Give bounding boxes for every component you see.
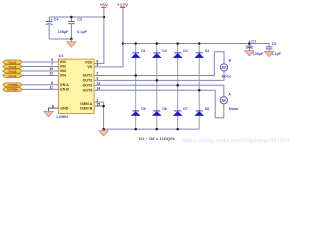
diode D8 — [195, 107, 210, 116]
node ISEN join — [102, 105, 105, 108]
capacitor C1 — [246, 40, 264, 57]
svg-text:7: 7 — [51, 63, 53, 67]
node D7 bottom rail — [176, 128, 179, 131]
node C1 top rail — [248, 42, 251, 45]
svg-text:D1 ~ D8 = 11DQ06: D1 ~ D8 = 11DQ06 — [139, 136, 176, 141]
svg-text:12: 12 — [49, 72, 53, 76]
svg-text:4: 4 — [96, 63, 98, 67]
wire cap bottom — [49, 38, 71, 40]
wire +5V vertical to VSS pin 9 — [94, 8, 104, 64]
node rail left end — [102, 128, 105, 131]
ground (below C1) — [245, 51, 255, 56]
wire Port1 to IN1 — [22, 61, 58, 63]
svg-text:Motor: Motor — [229, 107, 239, 111]
wire B PWM to EN B — [22, 88, 58, 90]
svg-text:D5: D5 — [141, 107, 145, 111]
diode D1 — [131, 49, 146, 58]
svg-text:6: 6 — [51, 81, 53, 85]
diode D4 — [195, 49, 210, 58]
wire OUT3 to motor A top — [94, 85, 224, 97]
svg-text:OUT2: OUT2 — [83, 79, 93, 83]
svg-text:Port2: Port2 — [9, 65, 17, 69]
svg-text:L298N: L298N — [57, 115, 69, 119]
diode D5 — [131, 107, 146, 116]
svg-text:ISEN B: ISEN B — [80, 107, 92, 111]
node +5V cap tee — [103, 16, 106, 19]
node D1 OUT1 — [134, 74, 137, 77]
svg-text:5: 5 — [51, 58, 53, 62]
wire GND pin 8 — [49, 108, 59, 112]
wire OUT4 to motor A bottom — [94, 90, 224, 118]
svg-text:100µF: 100µF — [253, 52, 265, 56]
svg-text:Motor: Motor — [222, 74, 232, 78]
svg-text:IN1: IN1 — [60, 60, 66, 64]
port A PWM — [3, 83, 23, 87]
node D4 OUT4 — [198, 89, 201, 92]
diode D2 column wire — [156, 44, 158, 130]
op-amp U1 body (L298N) — [58, 59, 94, 113]
svg-text:C3: C3 — [77, 18, 82, 22]
svg-text:11: 11 — [49, 86, 53, 90]
svg-text:M: M — [222, 98, 226, 103]
port B PWM — [3, 87, 23, 91]
svg-text:IN4: IN4 — [60, 74, 66, 78]
ground (IC GND) — [44, 111, 54, 116]
svg-text:EN A: EN A — [60, 83, 69, 87]
node C3 top — [70, 16, 73, 19]
wire bottom ground rail — [104, 128, 200, 130]
node D5 bottom rail — [134, 128, 137, 131]
node D2 top rail — [156, 42, 159, 45]
diode D7 — [173, 107, 188, 116]
svg-text:D6: D6 — [162, 107, 166, 111]
svg-text:C1: C1 — [251, 40, 256, 44]
svg-text:GND: GND — [60, 107, 68, 111]
port Port2 — [3, 65, 23, 69]
svg-text:100µF: 100µF — [58, 30, 70, 34]
svg-text:+12V: +12V — [117, 2, 129, 7]
svg-text:10: 10 — [49, 67, 53, 71]
node D2 OUT2 — [156, 79, 159, 82]
wire +12V top rail — [123, 43, 269, 45]
svg-text:U1: U1 — [59, 54, 64, 58]
svg-text:M: M — [222, 65, 226, 70]
svg-text:IN2: IN2 — [60, 65, 66, 69]
motor A — [220, 92, 239, 111]
diode D3 column wire — [177, 44, 179, 130]
svg-text:A PWM: A PWM — [7, 83, 18, 87]
diode D6 — [152, 107, 167, 116]
ground (below C2) — [264, 51, 274, 56]
svg-text:OUT4: OUT4 — [83, 88, 93, 92]
port Port4 — [3, 74, 23, 78]
wire Port2 to IN2 — [22, 66, 58, 68]
svg-text:IN3: IN3 — [60, 69, 66, 73]
svg-text:D3: D3 — [183, 49, 187, 53]
wire OUT2 to motor B bottom — [94, 71, 224, 81]
motor B — [220, 58, 231, 78]
node D4 top rail — [198, 42, 201, 45]
svg-text:VSS: VSS — [85, 61, 93, 65]
svg-text:0.1µF: 0.1µF — [77, 30, 87, 34]
wire cap top rail — [49, 16, 104, 18]
diode D2 — [152, 49, 167, 58]
wire A PWM to EN A — [22, 84, 58, 86]
svg-text:Port4: Port4 — [9, 74, 17, 78]
svg-text:+5V: +5V — [100, 2, 109, 7]
svg-text:D4: D4 — [205, 49, 209, 53]
port Port1 — [3, 60, 23, 64]
capacitor C4 — [46, 17, 69, 39]
wire +12V vertical to VS pin 4 — [94, 8, 123, 67]
svg-text:C2: C2 — [272, 42, 277, 46]
ground (below C3/C4) — [67, 39, 77, 47]
node +12V rail tee — [122, 42, 125, 45]
svg-text:D8: D8 — [205, 107, 209, 111]
node C3 bottom — [70, 38, 73, 41]
svg-text:D7: D7 — [183, 107, 187, 111]
svg-text:VS: VS — [87, 65, 92, 69]
svg-text:Port1: Port1 — [9, 60, 17, 64]
wire OUT1 to motor B top — [94, 52, 224, 76]
wire Port4 to IN4 — [22, 75, 58, 77]
wire ISEN A / ISEN B to ground rail — [94, 102, 104, 129]
svg-text:htlps://blog.csdn.nel/dingdang: htlps://blog.csdn.nel/dingdang1987824 — [182, 138, 290, 144]
svg-text:D2: D2 — [162, 49, 166, 53]
svg-text:D1: D1 — [141, 49, 145, 53]
ground (bottom rail) — [99, 129, 109, 136]
power +5V — [100, 2, 109, 7]
diode D1 column wire — [135, 44, 137, 130]
wire Port3 to IN3 — [22, 70, 58, 72]
svg-text:EN B: EN B — [60, 88, 69, 92]
svg-text:OUT1: OUT1 — [83, 74, 93, 78]
node D3 top rail — [176, 42, 179, 45]
capacitor C3 — [68, 17, 88, 39]
node D1 top rail — [134, 42, 137, 45]
diode D4 column wire — [198, 44, 200, 130]
svg-text:+: + — [50, 18, 52, 22]
svg-text:B PWM: B PWM — [7, 88, 18, 92]
diode D3 — [173, 49, 188, 58]
svg-text:OUT3: OUT3 — [83, 84, 93, 88]
capacitor C2 — [266, 42, 282, 56]
power +12V — [117, 2, 129, 7]
node D3 OUT3 — [176, 84, 179, 87]
svg-text:Port3: Port3 — [9, 69, 17, 73]
node D6 bottom rail — [156, 128, 159, 131]
port Port3 — [3, 69, 23, 73]
